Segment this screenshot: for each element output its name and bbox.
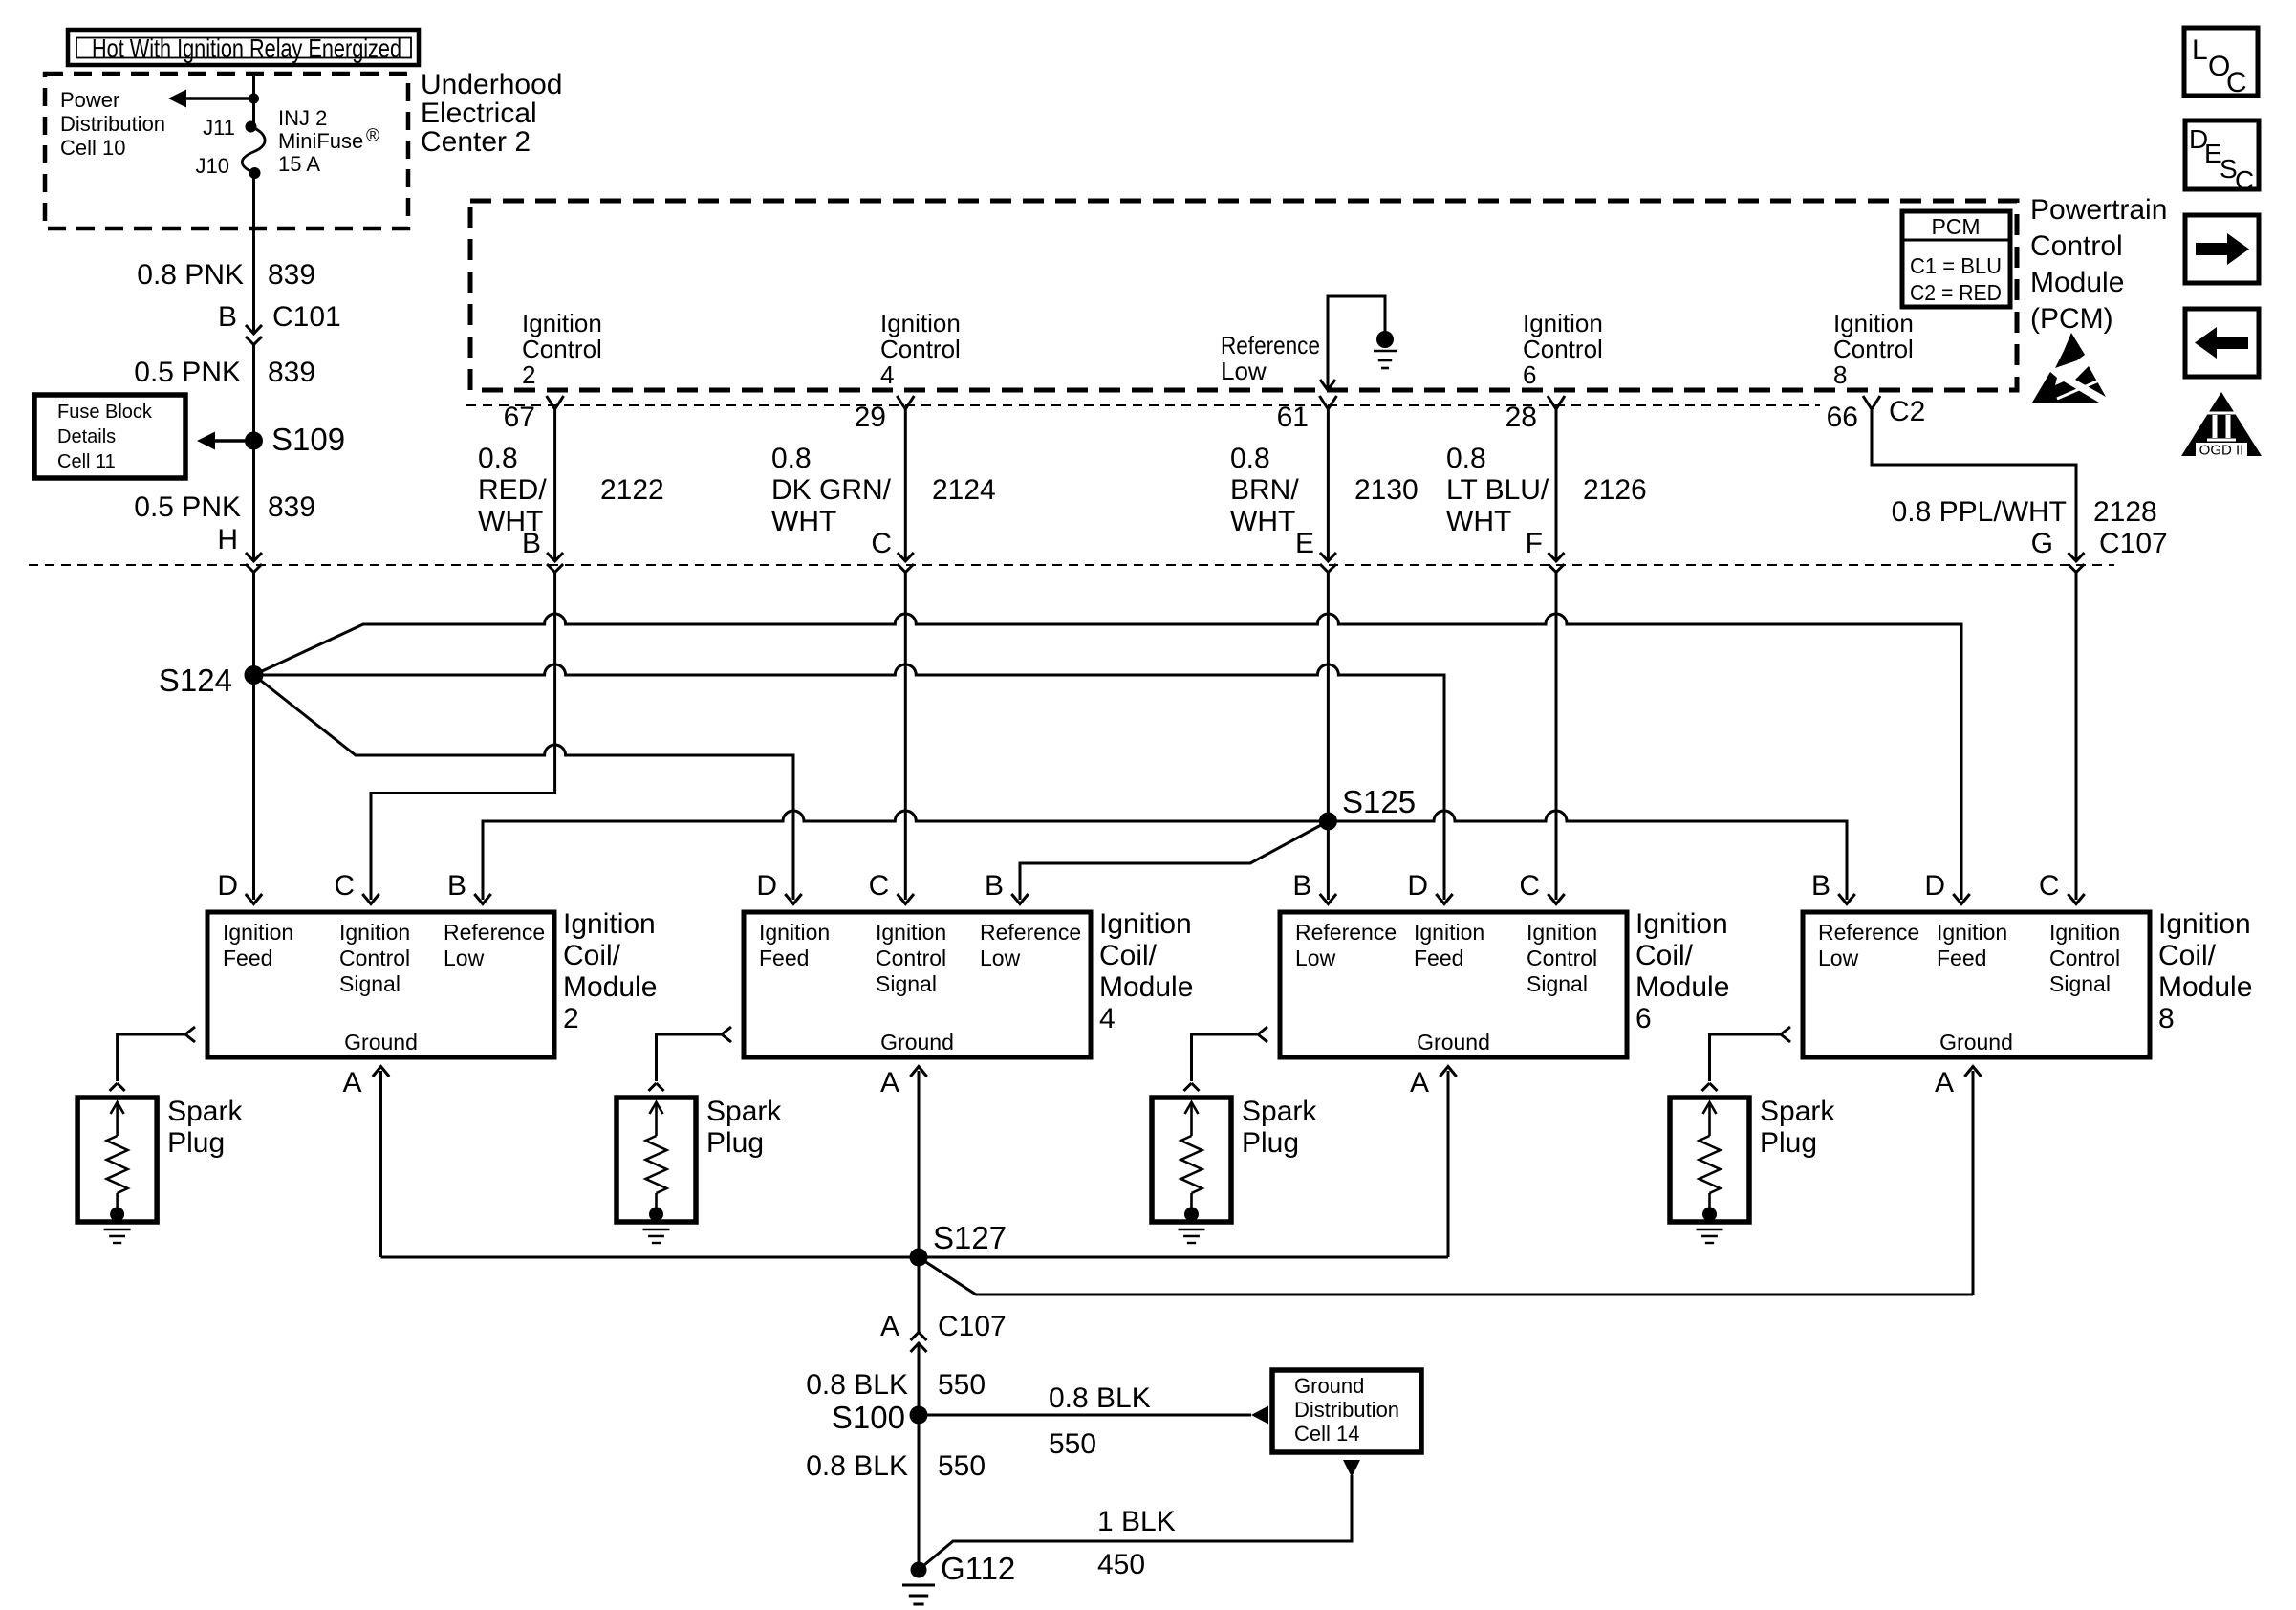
svg-text:Module: Module: [2030, 267, 2124, 298]
svg-text:Low: Low: [1295, 946, 1336, 970]
svg-text:H: H: [217, 524, 238, 555]
svg-text:OGD II: OGD II: [2199, 443, 2244, 459]
wire 2126 LT BLU/WHT: [1555, 421, 1558, 561]
svg-text:Ignition: Ignition: [1635, 908, 1728, 940]
svg-text:Ignition: Ignition: [876, 920, 946, 945]
svg-text:Plug: Plug: [167, 1127, 225, 1159]
svg-text:8: 8: [2158, 1003, 2175, 1034]
svg-text:C107: C107: [938, 1311, 1007, 1342]
svg-text:B: B: [447, 870, 466, 902]
svg-text:C1 = BLU: C1 = BLU: [1910, 253, 2002, 278]
ignition coil/module 8 box: [1803, 912, 2150, 1057]
pin 66 terminal, connector C2: [1863, 396, 1872, 409]
pin 67 terminal: [547, 396, 555, 409]
wire reference low bus left: S125 to module 2 pin B: [483, 811, 1328, 900]
splice S109: [245, 432, 263, 450]
svg-text:Plug: Plug: [1242, 1127, 1299, 1159]
svg-text:C2 = RED: C2 = RED: [1910, 280, 2002, 305]
wire spark plug to module secondary: [118, 1034, 185, 1081]
ignition coil/module 4 box: [744, 912, 1091, 1057]
wire 2128 to module 8 pin C: [2075, 573, 2078, 901]
svg-text:Coil/: Coil/: [1099, 940, 1158, 971]
svg-text:A: A: [880, 1311, 899, 1342]
C107 pin C connector: [898, 553, 914, 561]
svg-text:Ground: Ground: [1939, 1030, 2013, 1055]
svg-text:B: B: [1292, 870, 1311, 902]
svg-text:Details: Details: [57, 426, 116, 447]
svg-text:Reference: Reference: [1818, 920, 1919, 945]
svg-text:Distribution: Distribution: [60, 112, 165, 136]
svg-text:B: B: [985, 870, 1004, 902]
wire module 2 ground to S127: [373, 1067, 389, 1077]
pin 61 terminal: [1319, 396, 1328, 409]
svg-text:2: 2: [563, 1003, 579, 1034]
svg-text:A: A: [880, 1067, 899, 1099]
wire S124 bottom fan to module 4 pin D: [254, 675, 794, 900]
svg-text:2: 2: [522, 360, 535, 389]
ESD sensitivity symbol: [2055, 333, 2085, 368]
svg-text:Ground: Ground: [880, 1030, 954, 1055]
svg-text:2130: 2130: [1354, 474, 1419, 506]
svg-text:839: 839: [268, 357, 315, 388]
icon OGD II triangle: [2181, 392, 2262, 456]
wire S100 to Ground Distribution: [919, 1414, 1251, 1417]
svg-text:Signal: Signal: [1527, 971, 1588, 996]
svg-text:Feed: Feed: [1414, 946, 1463, 970]
splice S100: [910, 1406, 928, 1425]
svg-text:Control: Control: [1527, 946, 1597, 970]
svg-text:®: ®: [366, 126, 379, 146]
spark plug internal resistor: [650, 1102, 663, 1114]
icon DESC box: [2185, 120, 2259, 189]
wire spark plug to module secondary: [657, 1034, 723, 1081]
svg-text:28: 28: [1505, 402, 1537, 433]
svg-text:Ignition: Ignition: [1414, 920, 1484, 945]
C107 pin E connector: [1320, 553, 1336, 561]
wire 2126 to module 6 pin C: [1555, 573, 1558, 901]
svg-text:E: E: [1295, 528, 1314, 559]
svg-text:A: A: [1935, 1067, 1954, 1099]
label box "Hot With Ignition Relay Energized": [68, 30, 419, 65]
svg-text:Control: Control: [880, 335, 961, 363]
splice S125: [1319, 813, 1337, 831]
svg-text:Low: Low: [980, 946, 1021, 970]
svg-text:550: 550: [938, 1369, 986, 1401]
svg-text:Electrical: Electrical: [421, 98, 537, 129]
wire S124 top fan to module 8 pin D: [254, 614, 1962, 900]
svg-text:4: 4: [880, 360, 894, 389]
connector C2 dashed line: [466, 404, 1820, 406]
wire 0.5 PNK 839 (below S109): [252, 441, 255, 561]
spark plug box: [1152, 1098, 1231, 1222]
PCM internal ground loop: [1328, 296, 1385, 390]
svg-text:WHT: WHT: [771, 506, 836, 537]
svg-text:839: 839: [268, 491, 315, 523]
svg-text:D: D: [1924, 870, 1945, 902]
spark plug box: [1670, 1098, 1749, 1222]
svg-text:Coil/: Coil/: [563, 940, 621, 971]
svg-text:66: 66: [1827, 402, 1858, 433]
svg-text:0.8: 0.8: [1446, 443, 1486, 474]
wire 2122 jog to module 2 pin C: [371, 573, 555, 901]
svg-text:1 BLK: 1 BLK: [1097, 1506, 1176, 1537]
svg-text:DK GRN/: DK GRN/: [771, 474, 892, 506]
wire 0.8 PNK 839: [252, 173, 255, 334]
wire spark plug to module secondary: [1192, 1034, 1259, 1081]
svg-text:0.5 PNK: 0.5 PNK: [134, 357, 241, 388]
svg-text:C2: C2: [1889, 396, 1925, 427]
svg-text:(PCM): (PCM): [2030, 303, 2113, 335]
svg-text:C: C: [1519, 870, 1540, 902]
svg-text:Plug: Plug: [706, 1127, 764, 1159]
arrow to Power Distribution: [185, 97, 254, 100]
wire reference low bus right: S125 to module 8 pin B: [1328, 811, 1847, 900]
svg-text:0.8 PNK: 0.8 PNK: [137, 259, 244, 291]
svg-text:RED/: RED/: [478, 474, 547, 506]
spark plug ground: [1179, 1229, 1205, 1230]
svg-text:0.8: 0.8: [1230, 443, 1270, 474]
svg-text:Control: Control: [1523, 335, 1603, 363]
svg-text:WHT: WHT: [1446, 506, 1511, 537]
svg-text:839: 839: [268, 259, 315, 291]
wire S127 diagonal to module 8 ground: [919, 1257, 1973, 1295]
svg-text:MiniFuse: MiniFuse: [278, 129, 363, 153]
svg-text:C101: C101: [272, 301, 341, 333]
svg-text:G112: G112: [941, 1551, 1015, 1586]
svg-text:S109: S109: [271, 422, 345, 457]
svg-text:Reference: Reference: [1221, 331, 1320, 359]
wire from top into fuse: [252, 74, 255, 126]
wire S124 middle fan to module 6 pin D: [254, 664, 1445, 900]
wire 2122 RED/WHT: [553, 421, 556, 561]
svg-text:Coil/: Coil/: [1635, 940, 1694, 971]
svg-text:D: D: [756, 870, 777, 902]
svg-text:Ignition: Ignition: [1099, 908, 1192, 940]
svg-text:S127: S127: [933, 1220, 1007, 1255]
svg-text:Module: Module: [2158, 971, 2252, 1003]
spark plug box: [617, 1098, 696, 1222]
svg-text:Spark: Spark: [706, 1096, 782, 1127]
svg-text:Ignition: Ignition: [880, 309, 961, 337]
svg-text:S100: S100: [832, 1400, 905, 1435]
spark plug ground: [643, 1229, 670, 1230]
svg-text:S124: S124: [159, 663, 232, 698]
svg-text:B: B: [1811, 870, 1830, 902]
svg-text:B: B: [218, 301, 237, 333]
svg-text:450: 450: [1097, 1549, 1145, 1580]
svg-text:Ignition: Ignition: [759, 920, 830, 945]
svg-text:Low: Low: [444, 946, 485, 970]
wire module 4 ground through S127 to G112: [910, 1067, 926, 1077]
svg-text:Power: Power: [60, 88, 119, 112]
spark plug internal resistor: [1185, 1102, 1199, 1114]
icon left arrow box: [2185, 309, 2259, 377]
svg-text:Spark: Spark: [167, 1096, 243, 1127]
svg-text:Feed: Feed: [1937, 946, 1986, 970]
wire S125 branch to module 4 pin B: [1020, 821, 1328, 900]
svg-text:Powertrain: Powertrain: [2030, 194, 2167, 226]
svg-text:Signal: Signal: [876, 971, 937, 996]
svg-text:Control: Control: [2030, 230, 2123, 262]
svg-text:Low: Low: [1221, 357, 1267, 385]
svg-text:0.8 BLK: 0.8 BLK: [806, 1369, 908, 1401]
wire 2130 to S125 and module 6 pin B: [1327, 573, 1330, 901]
svg-text:Plug: Plug: [1760, 1127, 1817, 1159]
C107 pin F connector: [1549, 553, 1565, 561]
svg-text:Distribution: Distribution: [1294, 1398, 1399, 1422]
svg-text:0.8 BLK: 0.8 BLK: [806, 1450, 908, 1482]
svg-text:Ignition: Ignition: [2049, 920, 2120, 945]
svg-text:J11: J11: [203, 116, 235, 140]
svg-text:C: C: [2226, 67, 2247, 98]
svg-text:Ignition: Ignition: [1937, 920, 2007, 945]
svg-text:Fuse Block: Fuse Block: [57, 402, 153, 423]
svg-text:C: C: [2235, 165, 2254, 195]
svg-text:0.5 PNK: 0.5 PNK: [134, 491, 241, 523]
wire spark plug to module secondary: [1710, 1034, 1782, 1081]
pin 29 terminal: [897, 396, 905, 409]
svg-text:Ignition: Ignition: [339, 920, 410, 945]
svg-text:C: C: [869, 870, 890, 902]
svg-text:Cell 14: Cell 14: [1294, 1422, 1359, 1446]
svg-text:0.8 BLK: 0.8 BLK: [1049, 1382, 1151, 1414]
spark plug ground: [104, 1229, 131, 1230]
svg-text:550: 550: [938, 1450, 986, 1482]
wire ground bus to module 6: [381, 1256, 1449, 1259]
svg-text:Ground: Ground: [1294, 1374, 1364, 1398]
svg-text:Coil/: Coil/: [2158, 940, 2217, 971]
spark plug ground: [1697, 1229, 1723, 1230]
icon LOC box: [2184, 28, 2258, 96]
splice S127: [910, 1249, 928, 1267]
svg-text:D: D: [217, 870, 238, 902]
ignition coil/module 6 box: [1280, 912, 1627, 1057]
svg-text:0.8 PPL/WHT: 0.8 PPL/WHT: [1892, 496, 2067, 528]
svg-text:B: B: [522, 528, 541, 559]
svg-text:L: L: [2192, 34, 2208, 66]
svg-text:Spark: Spark: [1760, 1096, 1835, 1127]
svg-text:2128: 2128: [2093, 496, 2157, 528]
svg-text:Feed: Feed: [759, 946, 809, 970]
Underhood Electrical Center 2 dashed box: [45, 74, 408, 228]
wire 0.5 PNK to S124 and module 2 pin D: [252, 573, 255, 901]
svg-text:Control: Control: [522, 335, 602, 363]
spark plug internal resistor: [111, 1102, 124, 1114]
svg-text:67: 67: [504, 402, 535, 433]
svg-text:C107: C107: [2099, 528, 2168, 559]
svg-text:Module: Module: [1099, 971, 1193, 1003]
svg-text:Ground: Ground: [344, 1030, 418, 1055]
svg-text:Signal: Signal: [2049, 971, 2111, 996]
svg-text:Feed: Feed: [223, 946, 272, 970]
ignition coil/module 2 box: [207, 912, 554, 1057]
connector C107 dashed line: [29, 564, 2114, 566]
svg-text:WHT: WHT: [1230, 506, 1295, 537]
svg-text:2126: 2126: [1583, 474, 1647, 506]
svg-text:Center 2: Center 2: [421, 126, 531, 158]
svg-text:G: G: [2031, 528, 2053, 559]
wire 1 BLK 450 from Ground Distribution: [1343, 1460, 1360, 1477]
spark plug internal resistor: [1703, 1102, 1717, 1114]
svg-text:15 A: 15 A: [278, 152, 320, 176]
svg-text:Underhood: Underhood: [421, 69, 562, 100]
svg-text:Module: Module: [563, 971, 657, 1003]
svg-text:PCM: PCM: [1931, 214, 1980, 239]
wire 2130 BRN/WHT: [1327, 421, 1330, 561]
svg-text:Reference: Reference: [980, 920, 1081, 945]
svg-text:Module: Module: [1635, 971, 1729, 1003]
wire 0.5 PNK 839: [252, 345, 255, 442]
svg-text:Ignition: Ignition: [2158, 908, 2251, 940]
svg-text:8: 8: [1833, 360, 1847, 389]
svg-text:Ignition: Ignition: [563, 908, 656, 940]
svg-text:Reference: Reference: [1295, 920, 1397, 945]
icon right arrow box: [2185, 215, 2259, 283]
svg-text:Ignition: Ignition: [1833, 309, 1914, 337]
svg-text:LT BLU/: LT BLU/: [1446, 474, 1549, 506]
svg-text:6: 6: [1523, 360, 1536, 389]
svg-text:F: F: [1526, 528, 1543, 559]
svg-text:J10: J10: [196, 154, 229, 178]
svg-text:D: D: [1407, 870, 1428, 902]
svg-text:4: 4: [1099, 1003, 1116, 1034]
reference box Ground Distribution Cell 14: [1272, 1370, 1421, 1452]
svg-text:550: 550: [1049, 1428, 1096, 1460]
svg-text:29: 29: [855, 402, 886, 433]
C107 pin G connector: [2069, 553, 2085, 561]
svg-text:INJ 2: INJ 2: [278, 106, 327, 130]
svg-text:BRN/: BRN/: [1230, 474, 1299, 506]
svg-text:C: C: [871, 528, 892, 559]
svg-text:Ignition: Ignition: [223, 920, 293, 945]
svg-text:Reference: Reference: [444, 920, 545, 945]
svg-text:Spark: Spark: [1242, 1096, 1317, 1127]
splice S124: [245, 665, 264, 685]
svg-text:Control: Control: [876, 946, 946, 970]
C107 pin B connector: [547, 553, 563, 561]
svg-text:A: A: [1410, 1067, 1429, 1099]
svg-text:Control: Control: [339, 946, 410, 970]
reference box Fuse Block Details Cell 11: [34, 395, 185, 478]
svg-text:Ignition: Ignition: [1523, 309, 1603, 337]
ground G112: [911, 1562, 927, 1578]
svg-text:Control: Control: [2049, 946, 2120, 970]
svg-text:C: C: [2039, 870, 2060, 902]
wire 2124 DK GRN/WHT: [904, 421, 907, 561]
svg-text:Low: Low: [1818, 946, 1859, 970]
svg-text:Ignition: Ignition: [522, 309, 602, 337]
svg-text:Ground: Ground: [1417, 1030, 1490, 1055]
svg-text:2124: 2124: [932, 474, 996, 506]
svg-text:S125: S125: [1342, 784, 1416, 819]
svg-text:Ignition: Ignition: [1527, 920, 1597, 945]
svg-text:C: C: [334, 870, 355, 902]
PCM connector id box: PCM / C1=BLU / C2=RED: [1902, 211, 2010, 307]
spark plug box: [77, 1098, 157, 1222]
svg-text:Signal: Signal: [339, 971, 401, 996]
svg-text:2122: 2122: [600, 474, 664, 506]
svg-text:Control: Control: [1833, 335, 1914, 363]
wire 2124 to module 4 pin C: [904, 573, 907, 901]
pin 28 terminal: [1548, 396, 1556, 409]
svg-text:Cell 10: Cell 10: [60, 136, 125, 160]
PCM dashed box (Powertrain Control Module): [470, 201, 2017, 390]
svg-text:6: 6: [1635, 1003, 1652, 1034]
svg-text:0.8: 0.8: [478, 443, 518, 474]
svg-text:Cell 11: Cell 11: [57, 451, 116, 472]
svg-text:Hot With Ignition Relay Energi: Hot With Ignition Relay Energized: [92, 33, 401, 63]
arrow to Fuse Block Details: [214, 439, 254, 443]
svg-text:A: A: [342, 1067, 361, 1099]
wire 2128 PPL/WHT: [1872, 421, 2076, 561]
svg-text:0.8: 0.8: [771, 443, 812, 474]
svg-text:61: 61: [1277, 402, 1309, 433]
